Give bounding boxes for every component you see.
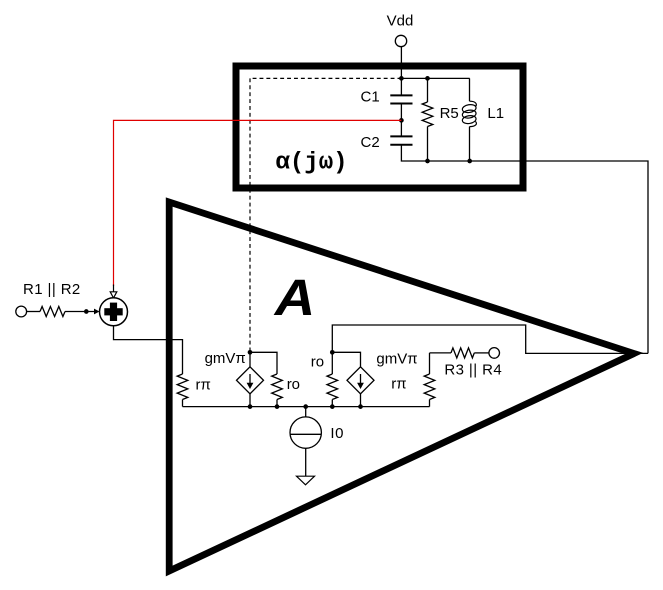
svg-text:L1: L1 bbox=[487, 105, 504, 122]
resistor ro (first stage) bbox=[272, 374, 300, 407]
capacitor C1 bbox=[361, 89, 413, 106]
node gmVpi1 top bbox=[248, 350, 253, 355]
node C1/C2 midpoint junction bbox=[399, 118, 404, 123]
node gmVpi1 bottom bbox=[248, 404, 253, 409]
node I0 top bbox=[303, 404, 308, 409]
current source I0 bbox=[290, 407, 344, 477]
arrowhead into summing junction left bbox=[94, 309, 100, 315]
wire C1 to C2 bbox=[400, 104, 402, 137]
svg-text:α(jω): α(jω) bbox=[276, 149, 348, 176]
vccs gmVpi (second stage) bbox=[332, 350, 417, 406]
svg-text:gmVπ: gmVπ bbox=[205, 350, 246, 367]
svg-text:ro: ro bbox=[287, 376, 300, 393]
vccs gmVpi (first stage) bbox=[205, 350, 264, 407]
svg-text:R5: R5 bbox=[440, 105, 459, 122]
node R5 top junction bbox=[425, 76, 430, 81]
wire output top rail bbox=[332, 325, 648, 353]
svg-text:C1: C1 bbox=[361, 89, 380, 106]
wire Vdd to C1 bbox=[400, 47, 402, 96]
node R5 bottom junction bbox=[425, 159, 430, 164]
capacitor C2 bbox=[361, 134, 413, 151]
svg-text:R1 || R2: R1 || R2 bbox=[23, 281, 81, 298]
wire bottom rail / feedback to amplifier output bbox=[401, 145, 648, 354]
op-amp A (amplifier triangle) bbox=[169, 202, 634, 571]
terminal output R3R4 bbox=[489, 348, 500, 359]
svg-text:rπ: rπ bbox=[391, 376, 406, 393]
resistor r_pi (second stage) bbox=[391, 353, 435, 407]
svg-text:A: A bbox=[273, 269, 316, 326]
node ro1 bottom bbox=[275, 404, 280, 409]
node input junction bbox=[84, 309, 89, 314]
wire summing junction to r_pi bbox=[114, 326, 183, 374]
resistor R1 || R2 bbox=[23, 281, 94, 317]
wire top rail in box bbox=[401, 77, 469, 79]
resistor R5 bbox=[422, 78, 459, 161]
wire dashed sense path bbox=[250, 78, 401, 352]
resistor ro (second stage) bbox=[311, 352, 338, 406]
arrowhead into summing junction bbox=[110, 285, 117, 299]
svg-text:C2: C2 bbox=[361, 134, 380, 151]
terminal input bbox=[16, 306, 27, 317]
inductor L1 bbox=[462, 78, 504, 161]
wire red feedback bbox=[114, 120, 402, 286]
svg-text:R3 || R4: R3 || R4 bbox=[444, 361, 502, 378]
feedback network box bbox=[236, 66, 523, 188]
svg-text:gmVπ: gmVπ bbox=[376, 350, 417, 367]
summing junction bbox=[100, 298, 128, 326]
ground bbox=[297, 476, 315, 485]
node Vdd/C1 junction bbox=[399, 76, 404, 81]
terminal Vdd bbox=[387, 13, 414, 47]
node ro2 bottom bbox=[330, 404, 335, 409]
node L1 bottom junction bbox=[467, 159, 472, 164]
svg-text:I0: I0 bbox=[330, 425, 344, 442]
wire stage bottom rail bbox=[183, 406, 430, 408]
svg-text:ro: ro bbox=[311, 353, 324, 370]
svg-text:Vdd: Vdd bbox=[387, 13, 414, 30]
resistor r_pi (first stage) bbox=[177, 374, 211, 407]
node ro2 top bbox=[330, 350, 335, 355]
resistor R3 || R4 bbox=[430, 348, 503, 378]
wire gmVpi1 to ro1 bbox=[250, 352, 277, 374]
svg-text:rπ: rπ bbox=[196, 376, 211, 393]
node gmVpi2 bottom bbox=[358, 404, 363, 409]
